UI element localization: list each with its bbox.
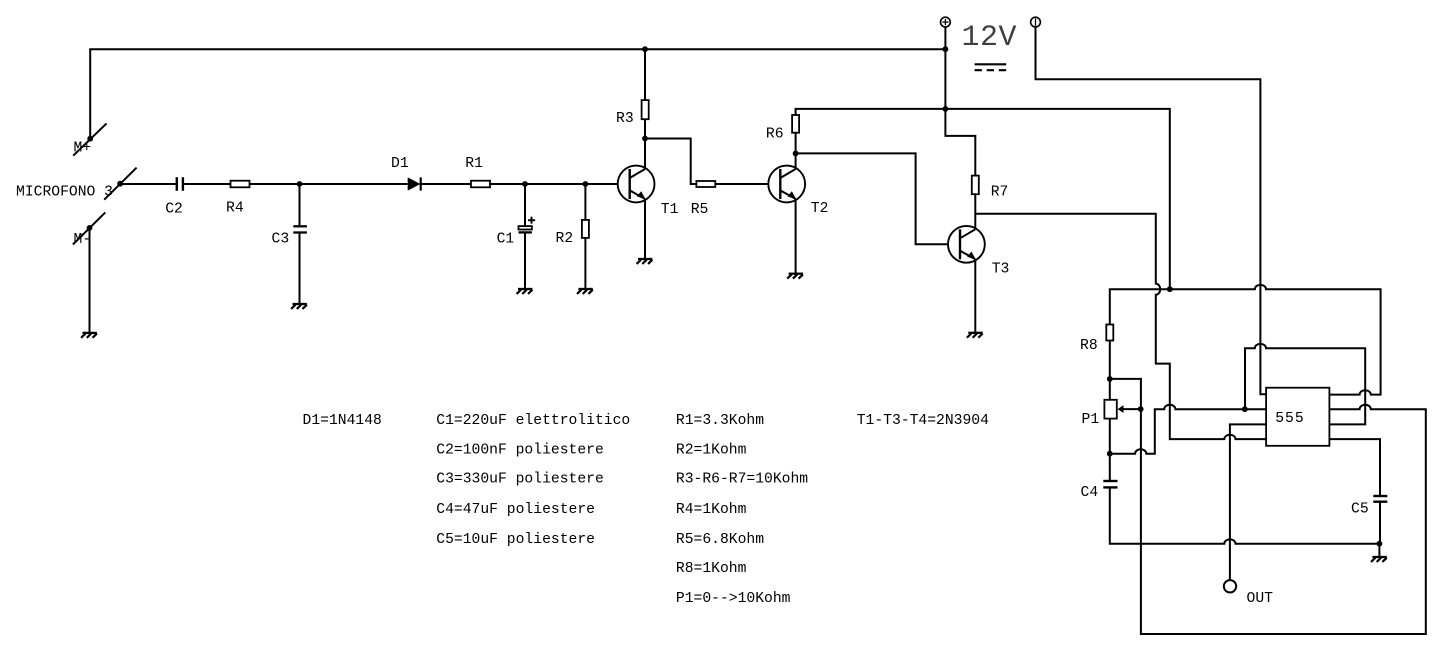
- svg-text:C4=47uF poliestere: C4=47uF poliestere: [436, 502, 595, 518]
- svg-text:P1: P1: [1082, 412, 1100, 428]
- svg-text:T3: T3: [992, 262, 1010, 278]
- svg-text:C3: C3: [272, 232, 290, 248]
- svg-text:T1: T1: [661, 202, 679, 218]
- svg-text:C2=100nF poliestere: C2=100nF poliestere: [436, 443, 603, 459]
- svg-text:R4=1Kohm: R4=1Kohm: [676, 502, 747, 518]
- svg-text:C1: C1: [497, 232, 515, 248]
- svg-text:R4: R4: [226, 201, 244, 217]
- svg-text:D1=1N4148: D1=1N4148: [303, 413, 382, 429]
- svg-text:12V: 12V: [962, 21, 1018, 55]
- svg-text:R8=1Kohm: R8=1Kohm: [676, 561, 747, 577]
- svg-text:R5: R5: [691, 202, 709, 218]
- svg-text:R6: R6: [766, 126, 784, 142]
- svg-text:M-: M-: [74, 232, 92, 248]
- svg-text:C5: C5: [1351, 501, 1369, 517]
- svg-text:R3: R3: [616, 111, 634, 127]
- svg-text:C3=330uF poliestere: C3=330uF poliestere: [436, 472, 603, 488]
- svg-text:R5=6.8Kohm: R5=6.8Kohm: [676, 532, 764, 548]
- svg-text:C5=10uF poliestere: C5=10uF poliestere: [436, 532, 595, 548]
- svg-text:C4: C4: [1081, 485, 1099, 501]
- svg-text:R7: R7: [991, 185, 1009, 201]
- svg-text:D1: D1: [391, 156, 409, 172]
- svg-text:P1=0-->10Kohm: P1=0-->10Kohm: [676, 591, 791, 607]
- svg-text:M+: M+: [74, 141, 92, 157]
- svg-text:MICROFONO 3: MICROFONO 3: [16, 184, 113, 200]
- svg-text:OUT: OUT: [1247, 591, 1274, 607]
- svg-text:R2: R2: [556, 231, 574, 247]
- svg-text:C1=220uF elettrolitico: C1=220uF elettrolitico: [436, 413, 630, 429]
- svg-text:R3-R6-R7=10Kohm: R3-R6-R7=10Kohm: [676, 472, 808, 488]
- svg-text:R1: R1: [465, 156, 483, 172]
- svg-text:R8: R8: [1080, 338, 1098, 354]
- svg-text:R2=1Kohm: R2=1Kohm: [676, 443, 747, 459]
- svg-text:R1=3.3Kohm: R1=3.3Kohm: [676, 413, 764, 429]
- svg-text:C2: C2: [165, 202, 183, 218]
- svg-text:555: 555: [1275, 411, 1304, 427]
- svg-text:T2: T2: [811, 201, 829, 217]
- svg-text:T1-T3-T4=2N3904: T1-T3-T4=2N3904: [857, 413, 989, 429]
